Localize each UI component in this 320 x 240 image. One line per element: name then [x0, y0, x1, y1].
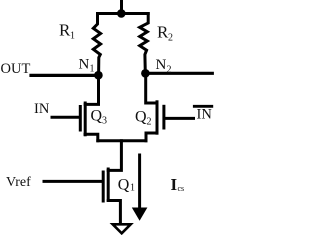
svg-text:IN: IN [34, 101, 50, 117]
svg-text:N: N [156, 57, 167, 73]
wire Vref gate lead [44, 180, 102, 183]
node N1 junction dot [94, 71, 103, 80]
transistor Q2 channel bar [156, 102, 159, 133]
wire Q2 source [146, 133, 157, 141]
wire top rail [98, 12, 149, 15]
wire INbar gate lead [165, 117, 194, 120]
resistor R2 [140, 14, 149, 74]
wire VDD stub [120, 0, 123, 14]
overline of INbar [194, 105, 212, 108]
junction dot VDD node [117, 9, 126, 18]
svg-text:1: 1 [90, 64, 95, 75]
wire Q3 drain [85, 75, 98, 104]
wire tail drop to Q1 [108, 141, 121, 171]
transistor Q3 gate bar [79, 107, 82, 131]
svg-text:I: I [171, 175, 178, 194]
svg-text:Vref: Vref [6, 175, 31, 190]
wire N2 output lead [145, 72, 212, 75]
svg-text:Q: Q [91, 108, 103, 125]
transistor Q1 channel bar [107, 169, 110, 200]
current arrow Ics head [132, 208, 148, 221]
svg-text:3: 3 [102, 116, 107, 127]
svg-text:2: 2 [167, 65, 172, 76]
svg-text:N: N [79, 57, 90, 73]
svg-text:OUT: OUT [1, 61, 31, 77]
svg-text:2: 2 [168, 33, 173, 44]
svg-text:Q: Q [135, 109, 147, 126]
wire Q1 source to ground [108, 201, 120, 224]
svg-text:cs: cs [178, 184, 185, 193]
transistor Q1 gate bar [102, 172, 105, 201]
wire tail rail [98, 139, 146, 142]
wire OUT lead [31, 74, 98, 77]
node N2 junction dot [141, 69, 150, 78]
svg-text:1: 1 [70, 31, 75, 42]
svg-text:Q: Q [118, 176, 130, 193]
current arrow Ics line [138, 155, 141, 208]
svg-text:IN: IN [197, 107, 213, 123]
wire Q3 source [85, 134, 98, 140]
wire Q2 drain [146, 73, 157, 103]
ground symbol [113, 224, 131, 233]
resistor R1 [93, 14, 100, 76]
svg-text:2: 2 [147, 117, 152, 128]
transistor Q3 channel bar [84, 103, 87, 135]
wire IN gate lead [52, 116, 79, 119]
transistor Q2 gate bar [162, 106, 165, 128]
svg-text:1: 1 [130, 183, 135, 194]
